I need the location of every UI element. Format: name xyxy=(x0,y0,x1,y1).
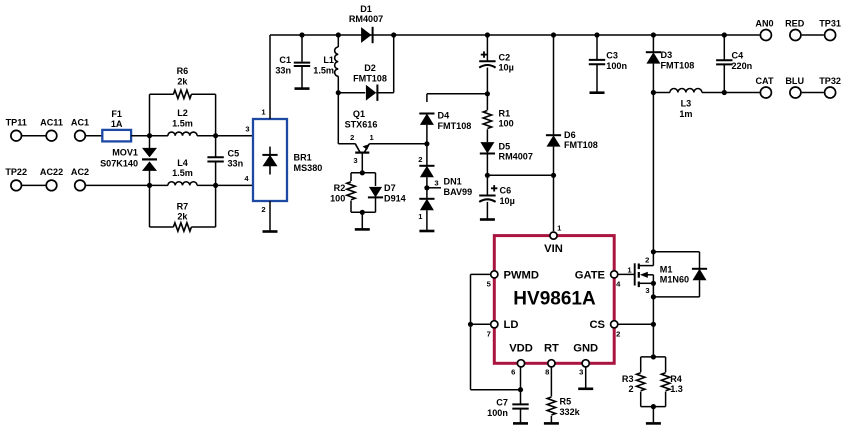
diode D2 xyxy=(353,63,387,101)
wire DN1 lower xyxy=(426,210,428,231)
svg-text:1m: 1m xyxy=(679,109,692,119)
svg-text:33n: 33n xyxy=(228,159,244,169)
pin 1 BR1 xyxy=(261,107,266,116)
pin 3 BR1 xyxy=(245,124,249,133)
wire L1 lower xyxy=(337,76,339,93)
svg-text:2k: 2k xyxy=(177,212,188,222)
wire D5 lower xyxy=(486,154,488,176)
pin PWMD xyxy=(491,269,539,281)
junction CS xyxy=(651,322,656,327)
terminal AC22 xyxy=(40,167,63,191)
svg-text:D6: D6 xyxy=(564,130,576,140)
pin 2 DN1 xyxy=(418,155,422,164)
wire BR1 pin2 down xyxy=(269,201,271,232)
transistor M1 xyxy=(635,263,689,287)
junction C3 top xyxy=(594,32,599,37)
wire R3R4 bottom xyxy=(641,406,666,408)
svg-text:FMT108: FMT108 xyxy=(661,60,695,70)
terminal TP11 xyxy=(6,118,27,142)
svg-text:R6: R6 xyxy=(177,66,189,76)
inductor L3 xyxy=(670,89,702,120)
capacitor C5 xyxy=(207,148,243,168)
svg-text:BR1: BR1 xyxy=(294,153,312,163)
wire C1 upper xyxy=(301,35,303,62)
wire Q1 base down xyxy=(361,153,363,173)
wire BR1 pin3 xyxy=(216,135,253,137)
wire R3R4 top xyxy=(641,356,666,358)
svg-text:GND: GND xyxy=(573,343,598,355)
ground R3R4 xyxy=(646,422,661,425)
ground BR1 xyxy=(263,230,278,233)
wire R4 lower xyxy=(665,392,667,407)
wire D2 right xyxy=(376,92,394,94)
svg-text:3: 3 xyxy=(579,368,583,377)
terminal CAT xyxy=(755,76,773,98)
terminal RED xyxy=(785,19,805,41)
wire BR1 pin4 xyxy=(216,184,253,186)
svg-text:STX616: STX616 xyxy=(345,120,378,130)
ground GND pin xyxy=(578,387,593,390)
wire L3 right xyxy=(702,92,724,94)
wire C4 lower xyxy=(723,64,725,92)
wire BLU-TP32 xyxy=(802,92,824,94)
wire RT down xyxy=(550,367,552,397)
wire L4 left xyxy=(150,184,168,186)
capacitor C4 xyxy=(716,51,752,71)
svg-text:HV9861A: HV9861A xyxy=(513,289,596,310)
svg-text:M1N60: M1N60 xyxy=(660,275,689,285)
svg-text:1.5m: 1.5m xyxy=(172,118,193,128)
pin 1 Q1 xyxy=(369,133,374,142)
svg-text:AC2: AC2 xyxy=(71,167,89,177)
svg-text:RT: RT xyxy=(544,343,559,355)
svg-text:3: 3 xyxy=(245,124,249,133)
svg-text:C4: C4 xyxy=(732,51,745,61)
wire D6 lower xyxy=(553,147,555,176)
resistor R4 xyxy=(661,373,682,394)
wire D4 top xyxy=(427,93,488,95)
ground R5 xyxy=(544,422,559,425)
pin number 7 LD xyxy=(487,329,491,338)
wire PWMD-LD vertical xyxy=(470,274,472,389)
wire R7 right xyxy=(191,226,215,228)
svg-text:BAV99: BAV99 xyxy=(444,187,473,197)
wire C7 lower xyxy=(520,409,522,424)
junction D6-VIN xyxy=(551,173,556,178)
svg-text:C7: C7 xyxy=(496,398,508,408)
terminal TP31 xyxy=(819,19,841,41)
svg-text:Q1: Q1 xyxy=(353,109,365,119)
junction AC1-filter xyxy=(147,133,152,138)
svg-text:C5: C5 xyxy=(228,148,240,158)
wire GND down xyxy=(585,367,587,389)
wire F1 to node xyxy=(131,135,149,137)
diode D5 xyxy=(480,141,533,161)
inductor L1 xyxy=(313,47,338,76)
ground DN1 xyxy=(419,230,434,233)
svg-text:D914: D914 xyxy=(384,194,407,204)
svg-text:2: 2 xyxy=(616,329,620,338)
pin number 6 VDD xyxy=(511,368,515,377)
junction drain xyxy=(651,249,656,254)
svg-text:7: 7 xyxy=(487,329,491,338)
pin GATE xyxy=(575,269,618,281)
svg-text:FMT108: FMT108 xyxy=(564,140,598,150)
pin 1 DN1 xyxy=(418,212,423,221)
wire VIN rail xyxy=(553,175,555,231)
junction D1 cathode xyxy=(391,32,396,37)
diode DN1 lower xyxy=(419,199,434,210)
svg-text:L2: L2 xyxy=(177,108,188,118)
wire C2 upper xyxy=(486,35,488,61)
wire R6 left xyxy=(150,93,174,95)
wire R3R4 gnd xyxy=(652,407,654,424)
wire R2 lower xyxy=(350,201,352,213)
wire L4 right xyxy=(197,184,216,186)
wire L1 upper xyxy=(337,35,339,47)
wire R1 upper xyxy=(486,94,488,110)
svg-text:3: 3 xyxy=(434,178,438,187)
svg-text:MS380: MS380 xyxy=(294,163,323,173)
svg-text:220n: 220n xyxy=(732,61,753,71)
wire R2 upper xyxy=(350,173,352,181)
svg-text:33n: 33n xyxy=(275,65,291,75)
junction LD node xyxy=(468,322,473,327)
diode M1 freewheel xyxy=(692,269,707,280)
dual diode DN1 label xyxy=(444,177,473,197)
wire D3 lower xyxy=(652,64,654,93)
svg-text:S07K140: S07K140 xyxy=(100,158,138,168)
junction R2D7 bottom xyxy=(360,210,365,215)
svg-text:RM4007: RM4007 xyxy=(499,152,533,162)
pin VIN xyxy=(544,232,563,255)
pin VDD xyxy=(509,343,533,367)
svg-text:AC22: AC22 xyxy=(40,167,63,177)
wire R1 lower xyxy=(486,129,488,142)
junction L4-C5 xyxy=(213,183,218,188)
pin number 1 VIN xyxy=(557,223,562,232)
fuse F1 xyxy=(102,109,131,142)
pin 3 DN1 xyxy=(434,178,438,187)
wire L2 right xyxy=(197,135,216,137)
svg-text:M1: M1 xyxy=(660,264,673,274)
wire R2D7 top xyxy=(351,172,376,174)
inductor L2 xyxy=(168,108,197,136)
resistor R5 xyxy=(547,397,580,417)
wire fw bottom xyxy=(653,296,699,298)
wire R4 upper xyxy=(665,357,667,372)
pin number 8 RT xyxy=(545,368,549,377)
ground C3 xyxy=(590,91,605,94)
svg-text:R1: R1 xyxy=(499,108,511,118)
svg-text:D4: D4 xyxy=(438,111,451,121)
pin 3 Q1 xyxy=(353,156,357,165)
svg-text:2: 2 xyxy=(645,255,649,264)
wire D4 lower xyxy=(426,125,428,144)
capacitor C7 xyxy=(487,398,529,418)
terminal TP22 xyxy=(5,167,27,191)
varistor MOV1 xyxy=(100,148,157,171)
terminal AC11 xyxy=(40,118,63,142)
svg-text:2: 2 xyxy=(261,205,265,214)
ground R2D7 xyxy=(355,228,370,231)
wire fw lower xyxy=(699,280,701,297)
pin 2 M1 xyxy=(645,255,649,264)
svg-text:FMT108: FMT108 xyxy=(438,121,472,131)
junction D5-C6 xyxy=(485,173,490,178)
junction Q1 base node xyxy=(360,170,365,175)
svg-text:BLU: BLU xyxy=(785,76,804,86)
svg-text:1.5m: 1.5m xyxy=(313,65,334,75)
svg-text:R3: R3 xyxy=(622,374,634,384)
svg-text:GATE: GATE xyxy=(575,269,606,281)
wire left rail lower xyxy=(149,185,151,227)
wire CS xyxy=(618,323,654,325)
wire top rail xyxy=(270,34,760,36)
svg-text:TP32: TP32 xyxy=(819,76,841,86)
pin number 2 CS xyxy=(616,329,620,338)
wire VDD down xyxy=(520,367,522,405)
wire C3 lower xyxy=(596,64,598,92)
wire R3 upper xyxy=(640,357,642,372)
diode D1 xyxy=(349,4,383,43)
wire L2 left xyxy=(150,135,168,137)
pin number 4 GATE xyxy=(616,279,621,288)
wire R6 right xyxy=(191,93,215,95)
svg-text:2: 2 xyxy=(628,384,633,394)
wire R3 lower xyxy=(640,392,642,407)
pin LD xyxy=(491,319,519,331)
terminal AC1 xyxy=(71,118,89,142)
wire left rail upper xyxy=(149,94,151,135)
terminal AC2 xyxy=(71,167,89,191)
svg-text:D2: D2 xyxy=(364,63,376,73)
pin number 5 PWMD xyxy=(487,279,492,288)
capacitor C2 xyxy=(479,51,514,72)
wire R2D7 gnd xyxy=(361,212,363,229)
svg-text:8: 8 xyxy=(545,368,549,377)
diode D4 xyxy=(419,111,471,131)
wire left rail mid lower xyxy=(149,170,151,185)
terminal AN0 xyxy=(755,19,773,41)
wire C6 lower xyxy=(486,202,488,220)
wire C4 upper xyxy=(723,35,725,60)
pin number 3 GND xyxy=(579,368,583,377)
ground C6 xyxy=(480,218,495,221)
svg-text:2: 2 xyxy=(350,133,354,142)
resistor R6 xyxy=(173,66,191,98)
wire gate xyxy=(618,273,635,275)
svg-text:R7: R7 xyxy=(177,201,189,211)
wire D7 upper xyxy=(375,173,377,186)
wire RED-TP31 xyxy=(802,34,824,36)
svg-text:C2: C2 xyxy=(499,52,511,62)
svg-text:2: 2 xyxy=(418,155,422,164)
diode D3 xyxy=(646,50,695,70)
svg-text:FMT108: FMT108 xyxy=(353,74,387,84)
wire C5 lower xyxy=(215,162,217,186)
svg-text:L3: L3 xyxy=(681,99,692,109)
junction C2 top xyxy=(485,32,490,37)
pin 3 M1 xyxy=(645,286,649,295)
svg-text:VIN: VIN xyxy=(544,243,563,255)
terminal TP32 xyxy=(819,76,841,98)
wire D5 to VIN rail xyxy=(487,174,553,176)
pin GND xyxy=(573,343,598,367)
svg-text:100: 100 xyxy=(499,119,514,129)
junction D3 top xyxy=(651,32,656,37)
svg-text:C1: C1 xyxy=(279,55,291,65)
svg-text:VDD: VDD xyxy=(509,343,533,355)
wire C2 lower xyxy=(486,68,488,94)
svg-text:C3: C3 xyxy=(606,51,618,61)
svg-text:TP11: TP11 xyxy=(6,118,27,128)
svg-text:R5: R5 xyxy=(560,397,572,407)
svg-text:DN1: DN1 xyxy=(444,177,462,187)
svg-text:6: 6 xyxy=(511,368,515,377)
svg-text:F1: F1 xyxy=(111,109,122,119)
svg-text:D5: D5 xyxy=(499,141,511,151)
svg-text:C6: C6 xyxy=(500,186,512,196)
junction L1-D2-Q1 xyxy=(336,90,341,95)
terminal BLU xyxy=(785,76,804,98)
svg-text:D3: D3 xyxy=(661,50,673,60)
svg-text:L4: L4 xyxy=(177,158,189,168)
svg-text:1A: 1A xyxy=(111,119,123,129)
wire D4 upper xyxy=(426,94,428,102)
junction L1 top xyxy=(336,32,341,37)
wire Q1 emitter lead xyxy=(369,143,427,145)
resistor R3 xyxy=(622,373,645,394)
wire R5 lower xyxy=(550,416,552,424)
wire BR1 pin1 up xyxy=(269,35,271,119)
wire right rail upper xyxy=(215,94,217,135)
junction L2-C5 xyxy=(213,133,218,138)
wire Q1 collector rail xyxy=(337,93,339,144)
svg-text:1.3: 1.3 xyxy=(670,384,683,394)
wire L3 left xyxy=(653,92,670,94)
junction DN1 mid xyxy=(424,185,429,190)
wire C3 upper xyxy=(596,35,598,60)
wire LD left xyxy=(471,323,491,325)
capacitor C3 xyxy=(589,51,627,71)
wire Q1 collector lead xyxy=(338,143,355,145)
resistor R1 xyxy=(483,108,513,128)
wire LD to VDD bottom xyxy=(471,389,521,391)
svg-text:RM4007: RM4007 xyxy=(349,14,383,24)
svg-text:AC1: AC1 xyxy=(71,118,89,128)
wire DN1 tap xyxy=(427,187,441,189)
svg-text:10µ: 10µ xyxy=(499,63,514,73)
svg-text:LD: LD xyxy=(504,319,519,331)
svg-text:AN0: AN0 xyxy=(755,19,773,29)
wire AC1 to F1 xyxy=(85,135,102,137)
wire fw top xyxy=(653,251,699,253)
diode D6 xyxy=(546,130,598,150)
svg-text:D1: D1 xyxy=(360,4,372,14)
pin RT xyxy=(544,343,559,367)
svg-text:CAT: CAT xyxy=(755,76,773,86)
svg-text:CS: CS xyxy=(589,319,605,331)
svg-text:100: 100 xyxy=(330,194,345,204)
resistor R7 xyxy=(173,201,191,231)
junction R3R4 top xyxy=(651,354,656,359)
wire DN1 upper xyxy=(426,144,428,166)
junction C1 top xyxy=(299,32,304,37)
pin CS xyxy=(589,319,617,331)
svg-text:3: 3 xyxy=(645,286,649,295)
svg-text:3: 3 xyxy=(353,156,357,165)
wire D2 left xyxy=(338,92,365,94)
inductor L4 xyxy=(168,158,197,186)
junction D4-Q1 xyxy=(424,141,429,146)
wire source down xyxy=(652,283,654,357)
wire AC2 to node xyxy=(85,184,150,186)
svg-text:D7: D7 xyxy=(384,183,396,193)
wire CAT out xyxy=(724,92,761,94)
svg-text:332k: 332k xyxy=(560,407,581,417)
svg-text:100n: 100n xyxy=(487,408,508,418)
svg-text:PWMD: PWMD xyxy=(504,269,539,281)
ground C1 xyxy=(295,87,310,90)
junction AC2-filter xyxy=(147,183,152,188)
transistor Q1 xyxy=(345,109,378,153)
svg-text:L1: L1 xyxy=(323,55,334,65)
svg-text:2k: 2k xyxy=(177,77,188,87)
capacitor C1 xyxy=(275,55,310,75)
junction VDD-C7 xyxy=(518,387,523,392)
svg-text:RED: RED xyxy=(785,19,805,29)
wire PWMD left xyxy=(471,273,491,275)
junction C4 top xyxy=(722,32,727,37)
wire R2D7 bottom xyxy=(351,211,376,213)
junction R3R4 bottom xyxy=(651,404,656,409)
wire DN1 mid xyxy=(426,177,428,199)
svg-text:MOV1: MOV1 xyxy=(112,148,138,158)
junction D6 top xyxy=(551,32,556,37)
wire C1 lower xyxy=(301,66,303,89)
svg-text:TP31: TP31 xyxy=(819,19,841,29)
resistor R2 xyxy=(330,182,355,204)
pin 4 BR1 xyxy=(244,174,249,183)
wire right rail lower xyxy=(215,185,217,227)
svg-text:TP22: TP22 xyxy=(5,167,27,177)
svg-text:1.5m: 1.5m xyxy=(172,168,193,178)
bridge rectifier BR1 xyxy=(253,119,322,201)
wire left rail mid upper xyxy=(149,136,151,150)
wire D2 cathode up xyxy=(393,35,395,93)
wire C5 upper xyxy=(215,136,217,158)
wire TP22-AC22 xyxy=(21,184,46,186)
svg-text:100n: 100n xyxy=(606,61,627,71)
wire D3 upper xyxy=(652,35,654,52)
pin 2 BR1 xyxy=(261,205,265,214)
wire C6 upper xyxy=(486,175,488,195)
capacitor C6 xyxy=(479,185,515,206)
wire R7 left xyxy=(150,226,174,228)
IC U1 HV9861A xyxy=(494,236,614,364)
wire D7 lower xyxy=(375,197,377,212)
wire fw upper xyxy=(699,252,701,269)
pin 1 M1 xyxy=(627,265,632,274)
junction L3-C4 xyxy=(722,90,727,95)
junction source xyxy=(651,294,656,299)
diode D7 xyxy=(368,183,407,203)
wire TP11-AC11 xyxy=(21,135,46,137)
svg-text:R2: R2 xyxy=(334,183,346,193)
junction D3-L3 xyxy=(651,90,656,95)
diode DN1 upper xyxy=(419,166,434,177)
